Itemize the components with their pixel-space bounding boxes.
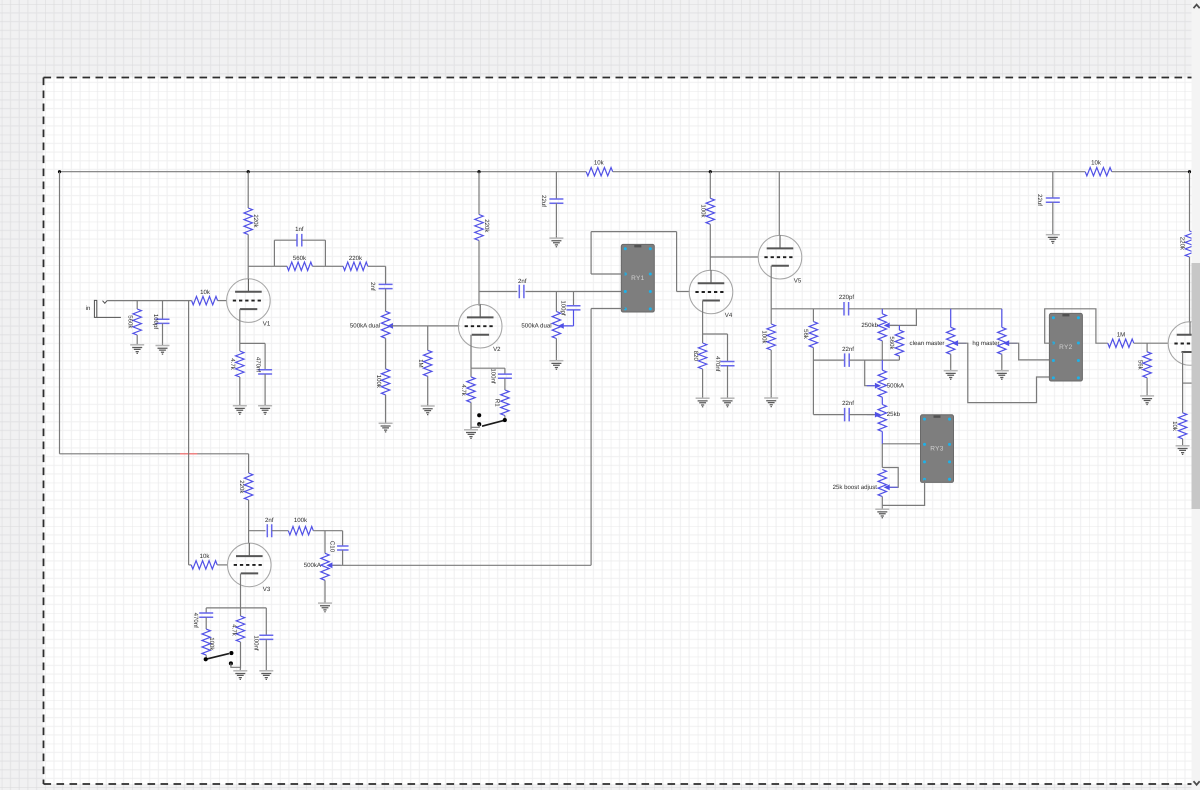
svg-text:560k: 560k <box>888 336 895 350</box>
svg-text:220pf: 220pf <box>839 294 855 301</box>
wire 2nf to pot <box>385 289 387 312</box>
capacitor 1nf <box>297 234 302 247</box>
svg-text:100nf: 100nf <box>489 368 496 384</box>
svg-text:V2: V2 <box>493 346 501 353</box>
capacitor 22nf mid 2 <box>845 408 850 422</box>
svg-text:1nf: 1nf <box>295 226 304 233</box>
svg-text:500kA: 500kA <box>304 562 322 569</box>
svg-text:250kb: 250kb <box>861 322 878 329</box>
wire pot to 100k <box>385 338 387 369</box>
svg-text:in: in <box>86 305 91 312</box>
wire input to grid stopper <box>107 300 191 302</box>
svg-text:22uf: 22uf <box>1036 194 1043 206</box>
junction bus at V1 branch <box>247 170 250 173</box>
wire parallel RC left leg <box>273 240 275 266</box>
wire 100nf to ground <box>265 639 267 668</box>
potentiometer clean master <box>950 309 952 328</box>
svg-text:100pf: 100pf <box>152 314 159 330</box>
scrollbar track <box>1192 0 1200 790</box>
wire V2 cathode <box>470 335 472 368</box>
wire V2 grid feed <box>392 325 460 327</box>
wire RY3 bottom pin route <box>882 480 924 506</box>
potentiometer 500kA mid <box>881 360 883 370</box>
svg-text:820: 820 <box>692 351 699 362</box>
svg-text:500kA dual: 500kA dual <box>350 323 380 330</box>
capacitor 2nf V3 coupling <box>267 524 271 537</box>
capacitor 22uf bus decoupler 2 <box>1052 172 1054 198</box>
svg-text:220k: 220k <box>1178 237 1185 251</box>
svg-text:V4: V4 <box>725 312 733 319</box>
svg-text:500kA dual: 500kA dual <box>521 323 551 330</box>
svg-text:R1: R1 <box>493 399 500 407</box>
wire V2 cathode junction <box>471 367 505 369</box>
wire 10k to V1 grid <box>218 300 227 302</box>
wire 56k down to 22nf2 <box>812 348 814 415</box>
wire V5 cathode <box>770 266 772 309</box>
wire RY1 pin2 stub <box>591 273 625 275</box>
wire V2 plate from bus <box>478 172 480 215</box>
wire RY1 pin2 feed top <box>591 231 677 233</box>
wire pot to ground <box>555 339 557 359</box>
svg-text:100k: 100k <box>208 637 215 651</box>
svg-text:RY1: RY1 <box>631 275 645 282</box>
wire 1M drop <box>427 326 429 350</box>
wire R1 to switch <box>504 416 506 420</box>
svg-text:56k: 56k <box>802 329 809 340</box>
wire hg master wiper route <box>1009 343 1053 360</box>
ground V6 cathode <box>1176 444 1190 455</box>
wire RY2 bypass over box <box>1045 309 1108 343</box>
scrollbar up arrow <box>1194 5 1200 9</box>
svg-text:220k: 220k <box>252 214 259 228</box>
capacitor 470nf V4 bypass <box>727 334 729 362</box>
wire 10k to ground <box>1182 439 1184 444</box>
svg-text:220k: 220k <box>349 255 363 262</box>
ground V3 volume pot <box>318 601 332 612</box>
wire 470nf to ground <box>264 374 266 403</box>
wire V4 grid stub <box>677 291 690 293</box>
wire boost wiper jog <box>882 468 898 488</box>
resistor 560k (V1-V2 series) <box>287 262 312 270</box>
ground V1 bypass <box>258 403 272 414</box>
switch SW2 throw closed contact <box>477 422 481 426</box>
wire 2nf to 100k <box>272 530 289 532</box>
wire clean master wiper route <box>958 343 1053 402</box>
wire mid wiper drop <box>865 360 875 386</box>
capacitor 22nf mid 1 <box>845 353 850 367</box>
wire 560k bottom stub <box>898 356 900 360</box>
ground V1 cathode <box>233 403 247 414</box>
wire V3 cathode <box>240 574 242 608</box>
wire V5 plate from bus <box>778 172 780 236</box>
wire 100k to ground <box>385 395 387 421</box>
triode V2 <box>458 304 502 348</box>
wire left B+ drop <box>59 172 61 454</box>
wire C10 drop <box>342 531 344 546</box>
wire 100k to ground <box>770 350 772 396</box>
resistor 10k V1 grid stopper <box>192 296 218 304</box>
wire switch to ground stub <box>471 424 479 427</box>
triode V3 <box>228 543 272 587</box>
relay RY3 <box>921 415 954 483</box>
wire treble wiper to rail <box>890 309 917 326</box>
wire input tee down to V3 <box>188 301 190 565</box>
wire 100pf to wiper <box>573 310 575 326</box>
wire V6 plate from bus <box>1189 172 1191 231</box>
ground V3 bypass <box>259 669 273 680</box>
wire V3 output to RY1 <box>333 564 592 566</box>
ground clean master <box>944 368 958 379</box>
resistor 100k V4 plate <box>706 198 714 224</box>
wire RY1 pin4 stub <box>591 308 625 310</box>
wire V4 plate to V5 grid <box>710 256 758 258</box>
wire V4 cathode junction <box>703 333 728 335</box>
ground boost pot <box>875 507 889 518</box>
svg-text:10k: 10k <box>1171 421 1178 432</box>
resistor 56k V6 grid <box>1146 343 1148 352</box>
ground 100k <box>379 421 393 432</box>
resistor 10k (bus dropper 1) <box>586 168 613 176</box>
svg-text:100k: 100k <box>700 204 707 218</box>
wire 22uf to ground <box>555 203 557 236</box>
resistor 56k slope drop <box>812 309 814 322</box>
wire 22uf2 to ground <box>1052 202 1054 232</box>
capacitor 100pf (gain b filter) <box>567 306 581 310</box>
capacitor 100pf input <box>162 301 164 320</box>
wire 100pf drop <box>573 292 575 306</box>
junction bus right end <box>1188 170 1191 173</box>
svg-text:RY2: RY2 <box>1059 344 1073 351</box>
wire V6 cathode <box>1182 352 1184 413</box>
resistor 220k (V1-V2 series) <box>343 262 368 270</box>
capacitor 100nf V3 bypass <box>265 608 267 635</box>
svg-text:470nf: 470nf <box>255 357 262 373</box>
svg-text:100k: 100k <box>375 375 382 389</box>
svg-text:2nf: 2nf <box>369 282 376 291</box>
wire tone rail left <box>771 308 844 310</box>
wire tone rail right <box>849 308 1002 310</box>
wire C10 to output <box>342 550 344 565</box>
wire mid pot to 25kb <box>881 397 883 404</box>
resistor 820 V4 cathode <box>698 343 706 369</box>
triode V6 <box>1168 322 1200 366</box>
wire V1 cathode junction <box>240 342 265 344</box>
svg-text:clean master: clean master <box>910 340 945 347</box>
svg-text:220k: 220k <box>483 219 490 233</box>
wire V3 cathode junction <box>206 607 266 609</box>
wire B+ bus segment 1 <box>60 171 587 173</box>
svg-text:470nf: 470nf <box>192 613 199 629</box>
resistor 220k V1 plate <box>244 208 252 235</box>
junction bus at V2 branch <box>477 170 480 173</box>
potentiometer 500kA V3 volume <box>324 531 326 554</box>
svg-text:100k: 100k <box>294 517 308 524</box>
wire 250kb bottom <box>881 341 883 360</box>
page border bottom <box>44 783 1200 785</box>
svg-text:22nf: 22nf <box>842 400 854 407</box>
svg-text:10k: 10k <box>200 553 211 560</box>
wire 220k to corner <box>368 265 386 267</box>
wire V2 coupling to RY1 <box>526 291 626 293</box>
wire V2 plate coupling left <box>479 291 517 293</box>
triode V5 <box>758 235 802 279</box>
svg-text:500kA: 500kA <box>887 382 905 389</box>
capacitor C10 <box>337 546 349 550</box>
wire mid node right <box>849 359 899 361</box>
wire 560k left stub <box>274 265 287 267</box>
wire clean master to ground <box>950 354 952 368</box>
relay RY1 <box>621 244 654 312</box>
potentiometer 25k boost adjust <box>878 470 886 497</box>
ground hg master <box>995 368 1009 379</box>
switch SW3 pole contact <box>204 657 208 661</box>
wire pot to ground <box>324 580 326 601</box>
capacitor 100nf V2 bypass <box>504 368 506 374</box>
resistor 220k V2 plate <box>475 215 483 241</box>
wire corner down to 2nf <box>385 266 387 284</box>
svg-text:22uf: 22uf <box>540 195 547 207</box>
svg-text:hg master: hg master <box>972 340 999 347</box>
resistor 560k input load drop <box>136 301 138 309</box>
resistor 10k V6 cathode <box>1178 413 1186 439</box>
svg-text:4.7k: 4.7k <box>230 624 237 636</box>
svg-text:560k: 560k <box>293 255 307 262</box>
wire parallel RC top left <box>274 239 297 241</box>
resistor 100k V3 coupling <box>288 527 313 535</box>
wire 56k to ground <box>1146 378 1148 394</box>
wire V4 cathode <box>702 301 704 343</box>
svg-text:220k: 220k <box>238 480 245 494</box>
ground gain b pot <box>549 358 563 369</box>
wire 4.7k to ground <box>470 402 472 427</box>
junction bus left end <box>58 170 61 173</box>
capacitor 470nf V3 left <box>205 608 207 613</box>
ground input 560k <box>130 343 144 354</box>
wire RY1 pin2 drop <box>590 232 592 274</box>
potentiometer 500kA dual (gain b) <box>555 292 557 312</box>
ground V2 cathode <box>464 428 478 439</box>
potentiometer 25kb bass <box>878 405 886 432</box>
triode V1 <box>227 279 271 323</box>
wire V3 plate drop <box>248 454 250 473</box>
svg-text:4.7k: 4.7k <box>229 358 236 370</box>
svg-text:25kb: 25kb <box>887 411 901 418</box>
switch SW3 lever <box>206 654 229 660</box>
wire V3 plate feed horizontal <box>60 453 249 455</box>
input jack J1 <box>94 300 121 317</box>
wire 820 to ground <box>702 369 704 396</box>
svg-text:22nf: 22nf <box>842 346 854 353</box>
potentiometer 500kA dual (gain a) <box>381 311 389 338</box>
resistor 100k V3 switchable <box>205 617 207 629</box>
ground V3 cathode <box>233 669 247 680</box>
wire 1M to ground <box>427 376 429 403</box>
wire RY1 pin4 to V3 output <box>590 309 592 566</box>
potentiometer 250kb treble <box>881 309 883 314</box>
page border left <box>43 78 45 785</box>
capacitor 2nf (to gain pot) <box>379 284 393 288</box>
resistor 1M V2 grid leak <box>424 350 432 376</box>
svg-text:25k boost adjust: 25k boost adjust <box>833 484 878 491</box>
wire 560k to ground <box>136 335 138 343</box>
capacitor 22uf bus decoupler 1 <box>555 172 557 199</box>
svg-text:V1: V1 <box>263 321 271 328</box>
wire V4 plate from bus <box>709 172 711 199</box>
resistor 100k V5 cathode <box>770 309 772 324</box>
resistor 4.7k V2 cathode <box>470 368 472 377</box>
triode V4 <box>689 270 733 314</box>
svg-text:2nf: 2nf <box>265 517 274 524</box>
switch SW2 pole contact <box>503 418 507 422</box>
wire crossing highlight (red) <box>180 453 197 455</box>
svg-text:1M: 1M <box>1117 332 1125 339</box>
wire 220k to V1 plate node <box>247 235 249 280</box>
page border top <box>44 77 1200 79</box>
svg-text:100nf: 100nf <box>252 635 259 651</box>
ground V6 grid <box>1140 394 1154 405</box>
svg-text:10k: 10k <box>1091 160 1102 167</box>
switch SW2 lever <box>482 420 505 426</box>
svg-text:470nf: 470nf <box>714 356 721 372</box>
resistor 10k (bus dropper 2) <box>1085 168 1112 176</box>
capacitor 220pf treble <box>844 302 849 316</box>
wire 100k to corner <box>313 530 342 532</box>
wire 10k to V3 grid <box>217 564 227 566</box>
wire pot wiper to 100pf <box>564 325 574 327</box>
svg-text:56k: 56k <box>1136 360 1143 371</box>
wire parallel RC right leg <box>324 240 326 266</box>
svg-text:C10: C10 <box>328 541 335 553</box>
wire V1 plate from bus <box>247 172 249 208</box>
wire hg master to ground <box>1001 354 1003 368</box>
wire B+ bus segment 2 <box>613 171 1085 173</box>
relay RY2 <box>1049 313 1082 381</box>
resistor 4.7k V3 cathode <box>240 608 242 616</box>
wire 220k to V3 plate node <box>248 500 250 544</box>
switch SW3 throw closed contact <box>229 661 233 665</box>
svg-text:560k: 560k <box>127 315 134 329</box>
svg-text:RY3: RY3 <box>930 446 944 453</box>
svg-text:V5: V5 <box>794 277 802 284</box>
wire 100pf to ground <box>162 323 164 343</box>
wire 1M to V6 grid <box>1134 342 1168 344</box>
svg-text:10k: 10k <box>200 289 211 296</box>
svg-text:2nf: 2nf <box>518 278 527 285</box>
resistor 10k V3 grid stopper <box>189 564 192 566</box>
capacitor 470nf V1 bypass <box>264 343 266 369</box>
wire 4.7k to ground <box>239 377 241 403</box>
resistor 4.7k V1 cathode <box>239 343 241 351</box>
wire 220k to V6 plate <box>1189 257 1191 322</box>
resistor 220k V3 plate <box>244 473 252 500</box>
wire 470nf to ground <box>727 366 729 396</box>
switch SW3 throw open contact <box>229 651 233 655</box>
ground 1M <box>421 404 435 415</box>
junction bus at V4 branch <box>709 170 712 173</box>
wire 560k to 220k <box>312 265 343 267</box>
resistor 560k tone <box>898 325 900 330</box>
wire V3 plate node right <box>249 530 266 532</box>
resistor 100k (pot lower) <box>381 369 389 395</box>
scrollbar down arrow <box>1194 781 1200 785</box>
resistor R1 bright resistor <box>504 378 506 390</box>
wire 22nf2 to bass wiper <box>849 414 874 416</box>
svg-text:10k: 10k <box>594 160 605 167</box>
wire boost pot to ground <box>881 497 883 507</box>
wire 25kb bottom <box>881 432 883 445</box>
switch SW2 throw open contact <box>477 413 481 417</box>
capacitor 2nf V2 coupling <box>519 285 524 299</box>
node V1 plate junction wire <box>248 265 274 267</box>
wire RY1 to V4 grid drop <box>676 232 678 292</box>
wire 100k to V4 plate <box>709 224 711 270</box>
ground V4 bypass <box>721 396 735 407</box>
svg-text:4.7k: 4.7k <box>460 384 467 396</box>
ground V5 cathode <box>764 396 778 407</box>
wire 22nf2 left <box>813 414 844 416</box>
wire V1 cathode <box>239 309 241 343</box>
wire bass to RY3 <box>882 443 924 445</box>
wire V6 cathode stub right <box>1183 382 1193 384</box>
resistor 220k V6 plate <box>1185 231 1193 257</box>
resistor 1M to V6 grid <box>1108 339 1134 347</box>
wire 100k to switch pole <box>205 655 207 659</box>
wire B+ bus segment 3 <box>1112 171 1190 173</box>
scrollbar thumb <box>1192 263 1200 509</box>
ground V4 cathode <box>696 396 710 407</box>
wire switch to ground stub <box>231 663 240 667</box>
svg-text:1M: 1M <box>417 359 424 367</box>
svg-text:V3: V3 <box>263 586 271 593</box>
wire 220k to V2 plate <box>478 241 480 306</box>
wire mid node left <box>813 359 844 361</box>
ground 22uf 1 <box>549 236 563 247</box>
ground 22uf 2 <box>1046 232 1060 243</box>
wire 4.7k to ground <box>240 642 242 669</box>
potentiometer hg master <box>1001 309 1003 328</box>
svg-text:100k: 100k <box>760 330 767 344</box>
ground input 100pf <box>156 343 170 354</box>
wire parallel RC top right <box>302 239 326 241</box>
